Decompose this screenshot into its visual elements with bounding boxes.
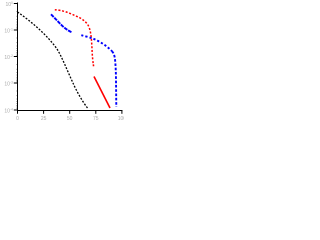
svg-text:50: 50: [67, 116, 73, 122]
svg-text:75: 75: [93, 116, 99, 122]
svg-text:100: 100: [118, 116, 124, 122]
svg-text:25: 25: [41, 116, 47, 122]
svg-text:0: 0: [16, 116, 19, 122]
